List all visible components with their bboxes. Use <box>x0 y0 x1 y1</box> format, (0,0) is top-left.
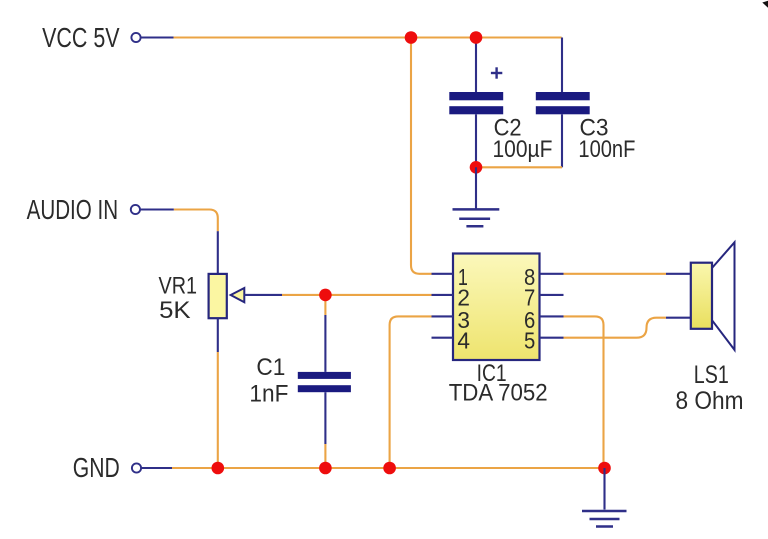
svg-text:5: 5 <box>524 328 535 354</box>
wire speaker bottom lead <box>666 317 691 319</box>
potentiometer wiper arrow <box>231 288 245 302</box>
IC1 pin 6 stub <box>540 315 564 317</box>
capacitor C3 bottom lead <box>561 114 563 167</box>
wire C1 top orange segment <box>324 295 326 315</box>
ground symbol bottom right <box>582 511 627 527</box>
wire IC pin 5 to speaker (orange with s-bend) <box>564 318 667 338</box>
svg-text:5K: 5K <box>159 297 191 324</box>
cursor mark top right <box>762 1 768 8</box>
svg-text:TDA 7052: TDA 7052 <box>449 379 548 406</box>
svg-text:8 Ohm: 8 Ohm <box>676 387 744 415</box>
svg-text:AUDIO IN: AUDIO IN <box>27 194 119 225</box>
resistor VR1 bottom lead <box>217 318 219 352</box>
svg-text:VCC 5V: VCC 5V <box>42 22 120 53</box>
IC1 pin 1 stub <box>432 273 454 275</box>
IC1 pin 3 stub <box>432 315 454 317</box>
wire GND bus (orange) <box>172 467 605 469</box>
terminal VCC circle <box>131 33 140 42</box>
junction dot C2 bottom <box>470 161 483 174</box>
IC1 pin 8 stub <box>540 273 564 275</box>
terminal AUDIO IN circle <box>131 205 140 214</box>
wire GND to IC pin 3 (orange, up then right) <box>390 316 432 468</box>
wire IC pin 6 to ground (orange, right then down) <box>564 316 604 468</box>
wire right ground lead <box>603 468 605 510</box>
wire wiper stub <box>244 294 282 296</box>
capacitor C1 bottom lead <box>324 392 326 444</box>
ground symbol under C2 <box>453 209 500 226</box>
resistor VR1 top lead <box>217 231 219 274</box>
junction dot GND/VR1 <box>212 462 225 475</box>
terminal GND circle <box>132 463 141 472</box>
svg-text:LS1: LS1 <box>694 361 729 389</box>
capacitor C2 plates <box>449 92 503 114</box>
wire VCC top bus (orange) <box>174 36 562 38</box>
wire IC pin 8 to speaker (orange) <box>564 273 667 275</box>
junction dot GND/pin3 <box>383 462 396 475</box>
wire speaker top lead <box>666 273 691 275</box>
capacitor C1 plates <box>298 372 351 392</box>
IC1 pin 4 stub <box>432 337 454 339</box>
IC1 pin 2 stub <box>432 294 454 296</box>
speaker LS1 cone <box>712 242 735 350</box>
capacitor C2 bottom lead <box>475 114 477 167</box>
svg-text:100nF: 100nF <box>578 136 635 163</box>
junction dot wiper/C1 <box>319 289 332 302</box>
wire AUDIO IN terminal stub <box>140 208 174 210</box>
svg-text:4: 4 <box>457 328 470 354</box>
junction dot GND right <box>598 462 611 475</box>
wire C1 bottom orange segment <box>324 444 326 468</box>
junction dot VCC/C2 <box>470 31 483 44</box>
svg-text:C1: C1 <box>256 354 285 381</box>
svg-text:1nF: 1nF <box>249 381 288 408</box>
wire C2 to C3 bottom link (orange) <box>476 166 562 168</box>
wire AUDIO IN to VR1 (orange, right then down) <box>174 210 218 232</box>
junction dot VCC/pin1 <box>405 31 418 44</box>
speaker LS1 body <box>691 263 712 329</box>
svg-text:GND: GND <box>73 452 120 483</box>
wire wiper to IC pin 2 (orange) <box>282 294 432 296</box>
junction dot GND/C1 <box>319 462 332 475</box>
op-amp IC1 body TDA7052 <box>453 254 540 361</box>
svg-text:100µF: 100µF <box>493 136 553 163</box>
IC1 pin 5 stub <box>540 337 564 339</box>
IC1 pin 7 stub <box>540 294 564 296</box>
resistor VR1 body <box>209 274 227 318</box>
capacitor C1 top lead <box>324 315 326 372</box>
wire C2 top lead <box>475 38 477 93</box>
capacitor C3 plates <box>536 92 590 114</box>
wire C2 ground lead <box>475 167 477 209</box>
wire C3 top lead <box>561 38 563 93</box>
wire VCC to IC pin 1 (orange, down then right) <box>411 38 432 274</box>
capacitor C2 polarity + <box>491 67 502 78</box>
wire VR1 bottom orange segment <box>217 352 219 468</box>
wire VCC terminal stub <box>141 36 174 38</box>
wire GND terminal stub <box>141 467 172 469</box>
svg-text:VR1: VR1 <box>159 272 198 299</box>
